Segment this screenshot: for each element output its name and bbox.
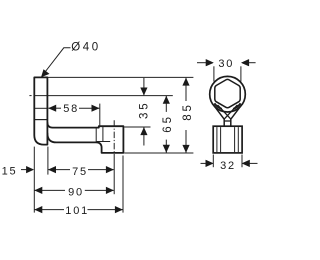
- svg-text:75: 75: [72, 166, 88, 178]
- svg-text:85: 85: [182, 102, 194, 121]
- svg-text:90: 90: [68, 186, 84, 198]
- svg-text:Ø40: Ø40: [71, 42, 101, 54]
- svg-text:65: 65: [162, 114, 174, 133]
- svg-text:58: 58: [63, 103, 79, 115]
- svg-text:35: 35: [139, 100, 151, 119]
- svg-text:15: 15: [2, 165, 18, 177]
- svg-text:32: 32: [220, 160, 236, 172]
- svg-text:30: 30: [218, 58, 234, 70]
- svg-text:101: 101: [65, 205, 89, 217]
